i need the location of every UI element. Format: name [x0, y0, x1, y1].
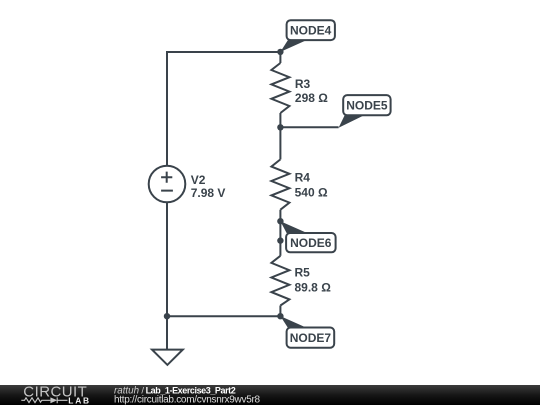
svg-text:http://circuitlab.com/cvnsnrx9: http://circuitlab.com/cvnsnrx9wv5r8 [114, 394, 261, 405]
wire left vertical lower (V2 - terminal to NODE7 net) [166, 202, 168, 316]
svg-text:V2: V2 [191, 173, 206, 187]
node NODE7 flag [280, 316, 334, 348]
voltage source V2 [149, 166, 186, 203]
svg-text:NODE6: NODE6 [290, 236, 332, 250]
svg-text:89.8 Ω: 89.8 Ω [295, 280, 332, 294]
svg-text:NODE5: NODE5 [346, 99, 388, 113]
wire R3 top lead [279, 52, 281, 63]
junction dot at NODE7 (R5 bottom / bottom wire) [277, 313, 283, 319]
node NODE6 flag [280, 221, 335, 252]
junction dot at NODE6 flag anchor [277, 237, 283, 243]
wire top horizontal (NODE4 net) [166, 51, 280, 53]
ground [152, 350, 183, 365]
svg-text:298 Ω: 298 Ω [295, 91, 328, 105]
CircuitLab logo diode symbol [50, 397, 67, 403]
wire R5 bottom lead [279, 306, 281, 317]
wire left vertical upper (NODE4 net to V2 + terminal) [166, 52, 168, 166]
node NODE4 flag [280, 20, 335, 52]
svg-text:540 Ω: 540 Ω [295, 185, 328, 199]
wire NODE5 horizontal stub [280, 126, 338, 128]
svg-text:R4: R4 [295, 171, 311, 185]
junction dot at NODE7 (V2 / ground / bottom wire) [164, 313, 170, 319]
resistor R4 [271, 159, 289, 209]
junction dot at NODE6 (R4 bottom) [277, 218, 283, 224]
CircuitLab logo resistor squiggle [21, 398, 50, 403]
wire R3 bottom lead to NODE5 junction [279, 113, 281, 159]
wire ground stem [166, 316, 168, 349]
wire bottom horizontal (NODE7 net) [167, 315, 280, 317]
resistor R5 [271, 256, 289, 306]
svg-text:R5: R5 [295, 266, 311, 280]
junction dot at NODE5 (R3 / R4 / stub) [277, 124, 283, 130]
node NODE5 flag [339, 95, 391, 128]
svg-text:NODE4: NODE4 [290, 24, 332, 38]
resistor R3 [271, 63, 289, 113]
svg-text:NODE7: NODE7 [290, 331, 332, 345]
wire R4 bottom lead to NODE6 junction [279, 210, 281, 256]
svg-text:7.98 V: 7.98 V [191, 186, 226, 200]
svg-text:LAB: LAB [68, 396, 91, 405]
svg-text:R3: R3 [295, 77, 311, 91]
junction dot at NODE4 (top wire / R3 top) [277, 49, 283, 55]
